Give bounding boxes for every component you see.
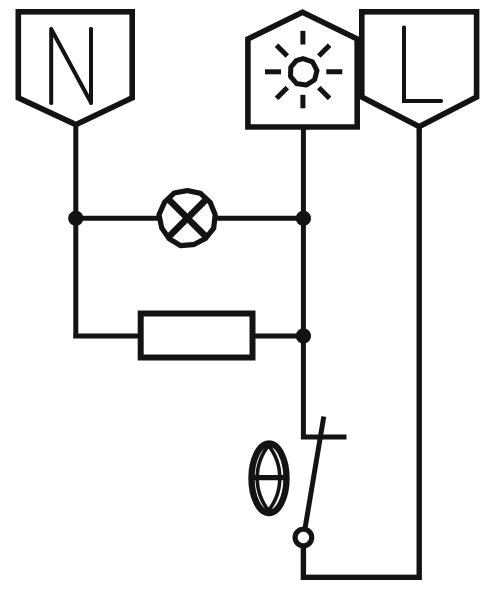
node junction dot top right (lamp row / L wire): [296, 211, 311, 226]
switch S1 pivot circle: [295, 529, 312, 546]
wire lamp row right segment: [216, 216, 305, 221]
switch S1 lever: [305, 417, 324, 529]
wire lamp row left segment: [74, 216, 159, 221]
glow lamp / neon indicator in switch: [252, 444, 287, 513]
terminal N: [18, 12, 132, 125]
terminal L: [362, 12, 477, 127]
node junction dot lower (resistor / switch wire): [296, 328, 311, 343]
wire from L terminal down right side and along bottom: [303, 124, 419, 577]
resistor R1: [141, 314, 253, 358]
light / sun glyph: [265, 31, 342, 109]
wire from illumination symbol down to switch: [301, 126, 306, 440]
label L: [404, 28, 441, 102]
illumination symbol (pentagon house with light): [248, 12, 357, 127]
lamp E1 (circle with cross): [159, 191, 215, 246]
switch S1 fixed contact: [301, 435, 347, 440]
label N: [51, 29, 91, 103]
node junction dot left (N / lamp tap): [68, 211, 83, 226]
wire resistor right lead: [254, 334, 305, 339]
wire from N terminal down to resistor row: [73, 122, 78, 339]
wire resistor left lead: [73, 334, 140, 339]
